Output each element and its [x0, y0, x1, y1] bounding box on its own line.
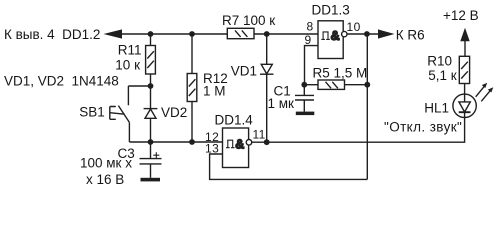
- svg-text:10 к: 10 к: [115, 58, 140, 73]
- gate DD1.4: [223, 128, 252, 168]
- value label C3: [80, 146, 135, 187]
- svg-text:VD1: VD1: [231, 64, 257, 79]
- svg-text:"Откл. звук": "Откл. звук": [384, 120, 462, 135]
- junction pin10 node: [364, 31, 370, 37]
- svg-text:К R6: К R6: [396, 28, 425, 43]
- gate DD1.3: [318, 21, 347, 59]
- svg-text:10: 10: [347, 20, 361, 34]
- capacitor C1: [295, 85, 314, 112]
- resistor R10: [459, 56, 469, 94]
- switch SB1: [110, 86, 130, 142]
- value label C1: [268, 83, 295, 110]
- junction R5 right: [364, 82, 370, 88]
- svg-text:VD2: VD2: [161, 105, 187, 120]
- svg-text:9: 9: [305, 33, 312, 47]
- value label R5: [313, 65, 368, 80]
- wire DD1.3 pin 9: [305, 46, 319, 85]
- capacitor C3: [140, 142, 162, 178]
- value label VD1: [231, 64, 257, 79]
- svg-text:1 М: 1 М: [203, 83, 226, 98]
- svg-text:HL1: HL1: [424, 101, 449, 116]
- wire feedback vertical: [366, 34, 368, 179]
- value label DD1.3: [312, 3, 350, 18]
- ground C3: [141, 178, 161, 182]
- ground C1: [296, 112, 315, 116]
- pin 8: [307, 20, 314, 34]
- svg-text:SB1: SB1: [79, 105, 105, 120]
- svg-text:R10: R10: [427, 54, 452, 69]
- svg-text:DD1.4: DD1.4: [215, 112, 254, 127]
- wire R11 bottom to SB1: [128, 83, 153, 89]
- node arrow to DD1.2 pin4: [104, 29, 123, 38]
- junction R12 top: [189, 31, 195, 37]
- svg-text:5,1 к: 5,1 к: [428, 68, 457, 83]
- junction R7-VD1 node: [264, 31, 270, 37]
- note label Otkl zvuk: [384, 120, 462, 135]
- LED HL1: [453, 94, 476, 117]
- node label K R6: [396, 28, 425, 43]
- resistor R5: [304, 80, 367, 89]
- svg-text:&: &: [235, 137, 244, 151]
- value label R11: [115, 43, 141, 73]
- junction VD2-C3 bottom: [148, 139, 154, 145]
- svg-text:11: 11: [253, 128, 266, 142]
- value label DD1.4: [215, 112, 254, 127]
- value label R10: [427, 54, 456, 83]
- junction R12 bottom: [189, 139, 195, 145]
- node arrow to R6: [378, 29, 395, 38]
- diode VD2: [144, 86, 158, 142]
- svg-text:+12 В: +12 В: [443, 8, 479, 23]
- resistor R11: [146, 34, 156, 86]
- value label VD2: [161, 105, 187, 120]
- svg-text:13: 13: [205, 142, 219, 156]
- value label R12: [203, 71, 228, 98]
- diode VD1: [260, 34, 274, 142]
- wire DD1.3 pin 10 output: [347, 33, 378, 35]
- wire bottom rail: [129, 141, 222, 143]
- svg-text:8: 8: [307, 20, 314, 34]
- value label HL1: [424, 101, 449, 116]
- svg-text:100 мк х: 100 мк х: [80, 156, 132, 171]
- svg-text:R5 1,5 М: R5 1,5 М: [313, 65, 368, 80]
- value label VD1 VD2 type: [4, 73, 119, 88]
- svg-text:VD1, VD2 1N4148: VD1, VD2 1N4148: [4, 73, 119, 88]
- LED arrows: [476, 83, 494, 102]
- svg-text:R7 100 к: R7 100 к: [222, 13, 275, 28]
- pin 11: [253, 128, 266, 142]
- svg-text:х 16 В: х 16 В: [86, 172, 124, 187]
- svg-text:R11: R11: [118, 43, 142, 58]
- svg-text:1 мк: 1 мк: [268, 96, 295, 111]
- svg-text:&: &: [331, 29, 340, 43]
- node label K vyv.4 DD1.2: [4, 27, 100, 42]
- svg-text:DD1.3: DD1.3: [312, 3, 350, 18]
- svg-text:К выв. 4 DD1.2: К выв. 4 DD1.2: [4, 27, 100, 42]
- wire top rail left: [122, 33, 227, 35]
- junction R5 left C1: [301, 82, 307, 88]
- junction VD1 pin11 node: [264, 139, 270, 145]
- resistor R12: [187, 34, 197, 142]
- wire R7 right to DD1.3 pin 8: [254, 33, 318, 35]
- wire DD1.4 pin 11 output to HL1: [252, 118, 465, 143]
- junction R11 top: [148, 31, 154, 37]
- wire DD1.4 pin 13 feedback: [210, 154, 368, 179]
- pin 9: [305, 33, 312, 47]
- value label SB1: [79, 105, 105, 120]
- node label +12V: [443, 8, 479, 23]
- resistor R7: [227, 28, 254, 38]
- pin 12: [205, 130, 219, 144]
- node +12V arrow: [460, 28, 469, 57]
- value label R7: [222, 13, 275, 28]
- pin 13: [205, 142, 219, 156]
- pin 10: [347, 20, 361, 34]
